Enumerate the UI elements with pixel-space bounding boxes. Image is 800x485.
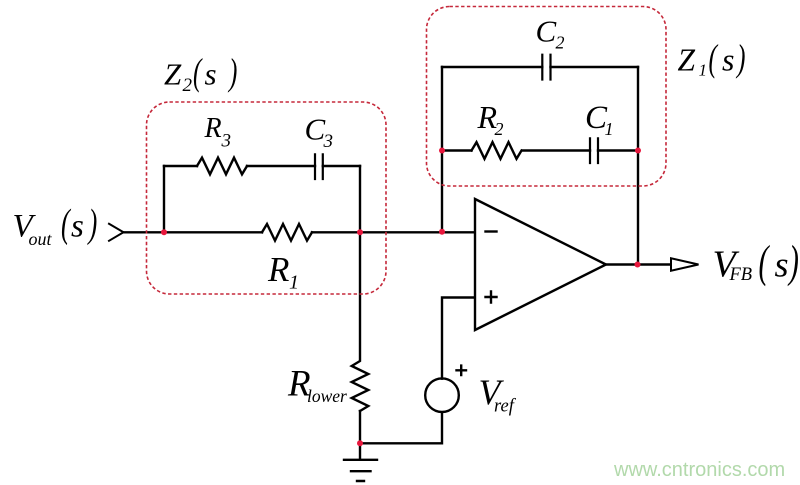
wire Z1 right vertical	[637, 67, 639, 265]
svg-text:3: 3	[221, 130, 232, 151]
svg-text:(: (	[193, 50, 203, 92]
label Vref	[479, 372, 517, 416]
voltage source Vref	[425, 378, 459, 412]
svg-text:www.cntronics.com: www.cntronics.com	[613, 459, 785, 481]
node output	[635, 262, 641, 268]
dashed box Z2	[147, 102, 387, 294]
svg-text:R: R	[267, 250, 289, 289]
wire bottom node to Vref	[360, 412, 442, 443]
svg-text:s: s	[205, 57, 217, 92]
wire Z2 right riser	[359, 166, 361, 232]
svg-text:s: s	[775, 245, 789, 285]
label C2	[536, 14, 565, 53]
svg-text:FB: FB	[729, 265, 753, 285]
wire Z2 left riser	[163, 166, 165, 232]
wire R1 to op-amp minus input	[312, 231, 475, 233]
node input / Z2 left	[161, 229, 167, 235]
node op-amp minus input	[439, 229, 445, 235]
svg-text:(: (	[709, 37, 719, 79]
resistor R2	[472, 142, 522, 159]
svg-text:(: (	[759, 238, 771, 288]
wire C2 branch right	[551, 66, 639, 68]
plus sign of Vref	[457, 366, 467, 375]
op-amp minus sign	[486, 230, 497, 232]
svg-text:): )	[787, 238, 798, 288]
svg-text:1: 1	[605, 119, 614, 139]
input arrow V_out	[109, 224, 124, 241]
resistor R3	[197, 158, 247, 175]
wire Z2 top left	[164, 165, 197, 167]
wire R2 branch left	[442, 149, 472, 151]
label R3	[204, 113, 232, 151]
wire C1 to right	[598, 149, 638, 151]
svg-text:C: C	[536, 14, 557, 49]
svg-text:C: C	[305, 112, 326, 147]
ground symbol	[344, 460, 377, 481]
label C3	[305, 112, 334, 153]
svg-text:1: 1	[699, 60, 708, 79]
op-amp plus sign	[486, 292, 497, 303]
resistor Rlower	[352, 232, 369, 411]
wire Z1 left vertical	[441, 67, 443, 232]
wire C2 branch left	[442, 66, 542, 68]
svg-text:3: 3	[323, 131, 334, 152]
wire C3 to right	[323, 165, 360, 167]
wire R2 to C1	[523, 149, 591, 151]
wire op-amp output	[606, 263, 671, 265]
node Z1 branch right	[635, 148, 641, 154]
label Z1(s)	[678, 37, 746, 79]
wire R3 to C3	[247, 165, 315, 167]
node ground	[357, 440, 363, 446]
svg-text:Z: Z	[164, 56, 182, 91]
svg-text:s: s	[722, 42, 734, 78]
svg-text:Z: Z	[678, 42, 696, 77]
svg-text:): )	[735, 37, 745, 79]
label R1	[267, 250, 299, 294]
svg-text:2: 2	[556, 32, 565, 52]
capacitor C3	[315, 154, 323, 179]
resistor R1	[262, 224, 312, 241]
node Z2 right / Rlower top	[357, 229, 363, 235]
wire Vref to op-amp plus input	[442, 298, 475, 379]
op-amp U1	[475, 199, 606, 330]
svg-text:): )	[227, 50, 237, 92]
svg-text:out: out	[29, 229, 53, 249]
capacitor C1	[590, 138, 598, 163]
svg-text:lower: lower	[307, 386, 347, 406]
svg-text:1: 1	[289, 272, 299, 294]
svg-text:R: R	[204, 113, 222, 144]
output arrow	[671, 258, 699, 270]
node Z1 branch left	[439, 148, 445, 154]
wire main input to R1	[124, 231, 262, 233]
label Z2(s)	[164, 50, 237, 96]
label C1	[585, 100, 614, 139]
dashed box Z1	[427, 7, 667, 187]
label Vout(s)	[13, 202, 98, 249]
svg-text:s: s	[71, 209, 84, 245]
svg-text:ref: ref	[494, 396, 517, 416]
svg-text:): )	[87, 202, 97, 246]
label VFB(s)	[713, 238, 799, 288]
capacitor C2	[542, 55, 550, 80]
wire Rlower to ground node	[359, 411, 361, 460]
svg-text:2: 2	[183, 75, 193, 96]
label Rlower	[287, 364, 347, 407]
label R2	[477, 99, 504, 139]
svg-text:2: 2	[495, 119, 504, 139]
